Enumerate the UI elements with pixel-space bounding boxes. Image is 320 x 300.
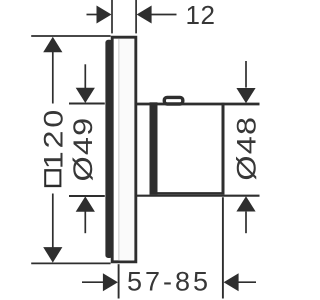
label diameter 48 [232,116,262,181]
label square 120 [39,107,69,186]
dim 49: top extension line [69,103,105,105]
knob bottom edge [150,192,224,194]
dim 57-85: right arrow (left-pointing) [224,273,239,291]
sleeve bottom contour + right extension line [137,195,260,197]
dim 12: left arrow [87,14,99,16]
grip tab on knob [164,97,183,104]
dim 120: top extension line [31,35,110,37]
svg-text:120: 120 [39,107,69,169]
dim 48: upper tail line [245,61,247,88]
dim 120: bottom extension line [31,262,110,264]
dim 57-85: right extension line [222,197,224,298]
dim 49: upper arrow (down) [76,88,95,103]
svg-text:Ø49: Ø49 [69,117,99,182]
svg-text:Ø48: Ø48 [232,116,262,181]
dim 12: right arrow [137,6,152,24]
dim 12: right extension line [135,0,137,33]
dim 49: lower tail line [84,212,86,234]
svg-text:12: 12 [186,0,216,30]
dim 48: lower tail line [245,212,247,234]
dim 12: left extension line [111,0,113,33]
sleeve/knob top contour line [137,103,260,106]
dim 120: top arrow (up) [43,37,62,53]
dim 120: dimension line lower segment [52,194,54,249]
label diameter 49 [69,117,99,182]
knob front face (right edge) [222,103,225,195]
dim 48: upper arrow (down) [236,88,255,103]
carrier bar (seal plate behind escutcheon) [105,40,112,258]
dim 48: lower arrow (up) [236,196,255,211]
dim 57-85: left extension line [118,264,120,298]
dim 49: upper tail line [84,64,86,88]
svg-text:57-85: 57-85 [127,267,211,297]
dim 49: bottom extension line [69,195,105,197]
dim 120: dimension line upper segment [52,52,54,104]
plate inner shading seam [118,39,120,261]
escutcheon plate rectangle (square 120, side view) [112,37,136,262]
knob back ring (dark bar) [150,102,158,195]
dim 120: bottom arrow (down) [43,247,62,263]
dim 57-85: left arrow (right-pointing) [82,281,103,283]
dim 49: lower arrow (up) [76,196,95,211]
